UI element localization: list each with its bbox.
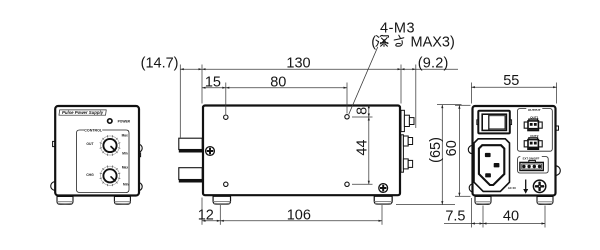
ext 65 bottom <box>396 204 455 206</box>
svg-text:CHG: CHG <box>86 173 94 177</box>
svg-text:7.5: 7.5 <box>445 209 465 225</box>
rear 55 dim line <box>471 86 556 88</box>
OUTPUT bracket <box>518 109 553 152</box>
front right tab <box>138 153 141 157</box>
IEC pin top <box>485 153 491 157</box>
IEC inlet outer <box>474 139 510 192</box>
EXT bracket <box>518 157 549 173</box>
ext 65 top <box>437 104 462 106</box>
knob shaft 2 <box>179 168 202 180</box>
kanji fukasa (depth) drawn as strokes <box>376 35 404 46</box>
svg-text:60: 60 <box>444 140 460 156</box>
svg-text:AC IN: AC IN <box>508 186 516 190</box>
rear 60 dim line <box>458 105 460 196</box>
top dim chain line <box>180 68 458 70</box>
svg-text:Max: Max <box>122 165 128 169</box>
svg-text:44: 44 <box>355 140 371 156</box>
front left tab <box>53 141 55 146</box>
ext line hole2 <box>346 83 348 114</box>
IEC pin bottom <box>485 173 491 177</box>
knob shaft 1 <box>179 138 202 149</box>
name plate <box>59 110 106 115</box>
rear ext box left bottom <box>470 198 472 228</box>
rear box <box>473 106 556 196</box>
rear foot right <box>537 197 553 205</box>
rear bump OUT2 side <box>403 136 408 146</box>
rear left bump 2 <box>469 184 472 192</box>
IEC pin middle <box>494 163 500 167</box>
front right bump 2 <box>138 182 142 190</box>
knob OUT <box>100 135 121 156</box>
ext box bottom-left <box>201 198 203 225</box>
svg-text:(: ( <box>371 35 376 51</box>
rear right bump <box>556 166 561 176</box>
hole top-left <box>224 115 228 119</box>
OUT1 connector <box>524 119 542 130</box>
svg-text:106: 106 <box>287 208 311 224</box>
front right bump 1 <box>138 144 142 152</box>
svg-text:OUT: OUT <box>86 142 94 146</box>
svg-text:15: 15 <box>205 75 221 91</box>
svg-text:12: 12 <box>198 208 214 224</box>
65 dim line <box>441 105 443 205</box>
arrowheads <box>180 68 556 225</box>
hole bottom-left <box>224 182 228 186</box>
side foot right <box>374 196 392 204</box>
rear left bump 1 <box>468 145 472 153</box>
svg-text:MAX3): MAX3) <box>411 35 455 51</box>
bottom dim line 12/106 <box>202 220 382 222</box>
svg-text:Min: Min <box>123 183 129 187</box>
front foot left <box>57 196 73 204</box>
side view box <box>203 106 400 196</box>
front foot right <box>114 196 130 204</box>
ground screw <box>533 180 545 192</box>
front left bump <box>51 182 55 191</box>
ext line knob front <box>179 65 181 138</box>
dimension texts <box>141 20 520 224</box>
svg-text:(14.7): (14.7) <box>141 56 179 72</box>
rocker switch <box>477 120 479 125</box>
rear ext foot right center <box>544 206 546 228</box>
rear bump EXT side <box>403 159 408 169</box>
svg-text:55: 55 <box>503 73 519 89</box>
dim line 8/44 vertical <box>368 105 370 185</box>
kanji SHIN (deep) <box>376 35 388 46</box>
svg-text:130: 130 <box>286 55 310 71</box>
ext foot left center <box>219 205 221 225</box>
ground arrow <box>525 180 527 191</box>
side foot left <box>213 196 230 204</box>
rear bump OUT1 side <box>404 115 409 126</box>
rear ext foot left center <box>482 206 484 228</box>
ext line hole1 <box>225 83 227 115</box>
ext foot right center <box>381 205 383 225</box>
dim line 15/80 <box>202 87 347 89</box>
svg-text:(9.2): (9.2) <box>418 55 449 71</box>
rear strip B (connector panel from side) <box>401 135 403 172</box>
kana SA <box>394 35 404 46</box>
rear ext right top <box>556 83 558 104</box>
ext hole2 horizontal <box>352 116 373 118</box>
svg-text:POWER: POWER <box>118 119 131 123</box>
rear strip A (switch from side) <box>401 110 404 131</box>
svg-text:40: 40 <box>503 209 519 225</box>
svg-text:Min: Min <box>122 152 128 156</box>
ext hole4 horizontal <box>352 183 373 185</box>
ext line box right <box>400 65 402 104</box>
rear ext 60 top <box>455 104 471 106</box>
screw side bottom-right <box>379 184 388 193</box>
hole bottom-right <box>345 182 349 186</box>
ext line bump right <box>415 65 417 129</box>
ext line box left <box>201 65 203 104</box>
power LED <box>108 119 112 123</box>
front panel box <box>55 106 139 196</box>
svg-text:(65): (65) <box>428 137 444 163</box>
svg-text:80: 80 <box>270 75 286 91</box>
control bracket <box>77 130 130 193</box>
svg-text:OUTPUT: OUTPUT <box>528 108 541 112</box>
knob CHG <box>100 165 121 186</box>
OUT2 connector <box>524 138 542 149</box>
svg-text:EXT ON/OFF: EXT ON/OFF <box>523 156 540 160</box>
rear right tab <box>556 126 559 130</box>
leader 4-M3 <box>349 47 378 114</box>
EXT connector <box>529 160 536 163</box>
rear ext left top <box>470 83 472 104</box>
hole top-right <box>345 115 349 119</box>
screw side left <box>206 147 215 156</box>
svg-text:CONTROL: CONTROL <box>84 128 103 132</box>
svg-text:Max: Max <box>122 133 128 137</box>
rear ext 60 bottom <box>455 195 471 197</box>
svg-text:8: 8 <box>355 107 371 115</box>
rear foot left <box>475 197 491 205</box>
IEC inlet socket <box>479 145 504 185</box>
svg-text:Pulse Power Supply: Pulse Power Supply <box>62 110 104 115</box>
rear bottom dim line 7.5/40 <box>444 223 545 225</box>
